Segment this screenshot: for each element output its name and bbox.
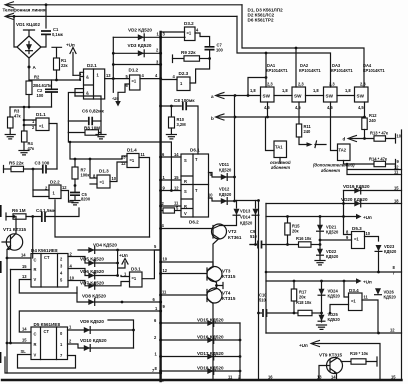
wire DA3 output to relay K2 — [331, 102, 338, 151]
wire C3 node down to D2.2 — [32, 169, 34, 197]
svg-text:100: 100 — [37, 93, 45, 98]
svg-text:510: 510 — [259, 298, 267, 303]
relay K2 — [338, 144, 351, 161]
wire D1.2 feedback to -Uп — [118, 84, 130, 101]
wire D6 pin 2/11 — [161, 205, 181, 207]
svg-text:SW: SW — [357, 94, 365, 99]
resistor R7 100к — [74, 159, 76, 167]
svg-text:11: 11 — [364, 295, 369, 300]
svg-text:VD13: VD13 — [240, 209, 251, 214]
svg-text:=1: =1 — [100, 180, 105, 185]
connector bar right — [401, 130, 403, 380]
resistor R4 47к — [22, 131, 28, 142]
wire +U to D2.1 pin — [73, 72, 84, 75]
svg-text:3,2М: 3,2М — [177, 122, 187, 127]
wire DA1 control tap — [265, 53, 267, 87]
stage 2 bottom frame — [266, 332, 402, 334]
svg-text:D2.1: D2.1 — [87, 63, 97, 68]
svg-text:C: C — [34, 258, 37, 263]
sub-circuit bottom frame — [55, 200, 150, 237]
svg-text:V: V — [184, 211, 187, 216]
wire DA1 output to relay K1 — [266, 102, 275, 151]
svg-text:R: R — [34, 267, 37, 272]
wire VD11/12 column from a-line — [234, 96, 236, 202]
svg-text:R2: R2 — [34, 75, 40, 80]
svg-text:4,5: 4,5 — [295, 105, 301, 110]
svg-text:V: V — [34, 353, 37, 358]
wire VT4 emitter down — [207, 299, 213, 381]
svg-text:VT2: VT2 — [228, 229, 237, 234]
node junction on line b — [13, 15, 16, 18]
svg-text:15: 15 — [394, 186, 399, 191]
node A — [28, 66, 31, 69]
svg-text:11: 11 — [228, 375, 233, 380]
svg-text:13: 13 — [106, 73, 111, 78]
svg-text:C: C — [34, 332, 37, 337]
svg-text:абонент: абонент — [321, 168, 340, 173]
svg-text:47к: 47к — [14, 114, 22, 119]
svg-text:КД520: КД520 — [219, 168, 232, 173]
svg-text:(дополнительный): (дополнительный) — [313, 163, 355, 168]
svg-text:VD11: VD11 — [219, 162, 230, 167]
resistor R2 — [26, 81, 32, 95]
node junction on line a — [45, 3, 48, 6]
wire column to R4 and D1.1 inputs — [23, 107, 25, 131]
svg-text:10: 10 — [208, 193, 213, 198]
svg-text:2,3: 2,3 — [298, 82, 304, 87]
svg-text:R: R — [34, 342, 37, 347]
svg-text:CT: CT — [44, 329, 50, 334]
svg-text:ТА1: ТА1 — [275, 145, 283, 150]
wire D3.2 output to C7 — [195, 33, 210, 46]
capacitor C2 100 — [51, 80, 53, 89]
svg-text:2,3: 2,3 — [267, 82, 273, 87]
svg-text:b: b — [211, 116, 214, 121]
svg-text:КР1014КТ1: КР1014КТ1 — [266, 68, 288, 73]
svg-text:VD6 КД520: VD6 КД520 — [80, 269, 104, 274]
wire D3.4 output — [362, 300, 378, 333]
wire D4 V pin loop — [19, 280, 77, 294]
svg-text:16: 16 — [268, 375, 273, 380]
wire D5 V pin loop — [18, 355, 76, 369]
svg-text:22к: 22к — [61, 63, 69, 68]
VT3 emitter / VT4 collector junction — [207, 277, 223, 289]
svg-text:1,8: 1,8 — [250, 88, 256, 93]
svg-text:КД520: КД520 — [328, 294, 341, 299]
capacitor C7 100 — [205, 47, 215, 50]
wire VD13/14 top rail — [235, 200, 259, 202]
svg-text:VD10 КД520: VD10 КД520 — [80, 338, 107, 343]
wire bottom return line A — [5, 357, 161, 373]
svg-text:VD9 КД520: VD9 КД520 — [80, 319, 104, 324]
svg-text:15: 15 — [174, 175, 179, 180]
svg-text:10: 10 — [70, 276, 75, 281]
svg-text:a: a — [211, 94, 214, 99]
svg-text:VD5 КД520: VD5 КД520 — [80, 257, 104, 262]
svg-text:VD19 КД520: VD19 КД520 — [343, 184, 370, 189]
svg-text:13: 13 — [22, 274, 27, 279]
wire D5 R pin — [6, 342, 9, 345]
wire line a bend to switches — [242, 5, 364, 87]
svg-text:D5.3: D5.3 — [352, 226, 362, 231]
wire DA2 control tap — [295, 48, 297, 87]
wire D2.1 lower inputs — [68, 89, 83, 133]
resistor R1 22к — [52, 47, 62, 58]
long vertical from VD13/14 node — [258, 201, 260, 381]
svg-text:КР1014КТ1: КР1014КТ1 — [363, 68, 385, 73]
svg-text:8200: 8200 — [81, 197, 91, 202]
svg-text:R18 10к: R18 10к — [296, 300, 312, 305]
svg-text:14: 14 — [174, 152, 179, 157]
svg-text:12: 12 — [174, 186, 179, 191]
svg-text:=1: =1 — [132, 79, 137, 84]
wire a riser to DA1 — [248, 78, 266, 96]
svg-text:VD8 КД520: VD8 КД520 — [82, 294, 106, 299]
resistor R11 240 — [296, 124, 301, 137]
svg-text:D1.3: D1.3 — [99, 169, 109, 174]
svg-text:VT9 КТ315: VT9 КТ315 — [319, 353, 343, 358]
svg-text:15: 15 — [391, 375, 396, 380]
resistor R10 3,2М — [170, 106, 172, 117]
svg-text:C3 100: C3 100 — [35, 161, 50, 166]
svg-text:SL: SL — [21, 349, 27, 354]
svg-text:VD4 КД520: VD4 КД520 — [93, 243, 117, 248]
svg-text:&: & — [86, 75, 89, 80]
power -Uп arrow — [115, 101, 121, 107]
svg-text:КД520: КД520 — [219, 192, 232, 197]
svg-text:R9 22к: R9 22к — [181, 50, 196, 55]
svg-text:C4 1,5мк: C4 1,5мк — [36, 208, 56, 213]
svg-text:240: 240 — [304, 129, 312, 134]
wire DA2 output to R11 — [298, 102, 300, 124]
wire D1.3 output — [110, 162, 127, 182]
svg-text:R19 * 10к: R19 * 10к — [350, 351, 369, 356]
svg-text:VD3 КД520: VD3 КД520 — [128, 43, 152, 48]
svg-text:+Uп: +Uп — [66, 43, 75, 48]
svg-text:D3.4: D3.4 — [349, 288, 359, 293]
svg-text:100: 100 — [216, 48, 224, 53]
svg-text:SW: SW — [326, 94, 334, 99]
svg-text:15: 15 — [22, 264, 27, 269]
power +Uп wire (stage2) — [266, 280, 356, 282]
svg-text:14: 14 — [22, 327, 27, 332]
svg-text:S: S — [184, 189, 187, 194]
svg-text:d: d — [343, 137, 346, 142]
wire D2.1 output to column — [105, 78, 130, 80]
svg-text:V: V — [34, 277, 37, 282]
svg-text:КД520: КД520 — [326, 254, 339, 259]
wire node to D2.1 input — [29, 77, 84, 81]
svg-text:абонент: абонент — [271, 165, 290, 170]
wire D6 pin 6/14 — [161, 156, 181, 158]
svg-text:КР1014КТ1: КР1014КТ1 — [331, 68, 353, 73]
svg-text:R6 1М: R6 1М — [12, 208, 26, 213]
svg-text:VD2 КД520: VD2 КД520 — [128, 28, 152, 33]
svg-text:+Uп: +Uп — [299, 343, 308, 348]
wire bridge bottom to node A — [28, 58, 30, 80]
svg-text:S: S — [184, 158, 187, 163]
svg-text:12: 12 — [62, 185, 67, 190]
wire D5.3 output to VD23 — [365, 237, 379, 242]
svg-text:D4 К561ИЕ8: D4 К561ИЕ8 — [31, 248, 58, 253]
ground below R8 — [96, 135, 106, 139]
svg-text:VD12: VD12 — [219, 187, 230, 192]
svg-text:+Uп: +Uп — [363, 280, 372, 285]
wire D6 pin 9/12 — [161, 190, 181, 192]
wire D6 pin 1/15 — [161, 179, 181, 181]
wire D5 C feed from bus — [19, 311, 160, 332]
svg-text:510: 510 — [250, 234, 258, 239]
svg-text:КТ315: КТ315 — [222, 274, 236, 279]
svg-text:=1: =1 — [39, 124, 44, 129]
wire from line b down to bridge — [14, 16, 17, 47]
edge mark left 2 — [0, 261, 2, 273]
svg-text:12: 12 — [163, 268, 168, 273]
svg-text:SW: SW — [263, 94, 271, 99]
svg-text:VT1 КТ315: VT1 КТ315 — [3, 227, 27, 232]
wire from line a down to C1 — [45, 5, 47, 28]
svg-text:R: R — [184, 179, 187, 184]
svg-text:2В4.61Пк: 2В4.61Пк — [33, 83, 52, 88]
wire DA4 output to R12 — [364, 102, 366, 118]
svg-text:4,5: 4,5 — [358, 105, 364, 110]
svg-text:=1: =1 — [354, 237, 359, 242]
wire line a (top phone wire) — [8, 4, 242, 6]
svg-text:D1.1: D1.1 — [36, 112, 46, 117]
svg-text:D6.1: D6.1 — [190, 148, 200, 153]
wire VT3 collector from bus — [161, 262, 213, 267]
svg-text:+Uп: +Uп — [119, 253, 128, 258]
svg-text:18: 18 — [394, 199, 399, 204]
svg-text:D6 К561ТР2: D6 К561ТР2 — [248, 18, 274, 23]
wire VT2 base from bus — [161, 228, 213, 230]
wires to connector 12/11 — [347, 164, 402, 175]
svg-text:=1: =1 — [187, 31, 192, 36]
wire D4 R pin — [11, 269, 32, 271]
stage 1 frame — [266, 204, 402, 334]
svg-text:11: 11 — [162, 290, 167, 295]
main bus (bold vertical) — [159, 32, 161, 381]
svg-text:D1.2: D1.2 — [129, 68, 139, 73]
svg-text:КД520: КД520 — [384, 249, 397, 254]
wire line b bend to switches — [237, 16, 331, 87]
ground below R3 — [5, 135, 15, 139]
svg-text:20к: 20к — [292, 229, 300, 234]
svg-text:10: 10 — [366, 231, 371, 236]
wire between switches — [274, 95, 355, 97]
wire VT1 emitter rail with D4 C pin — [6, 257, 9, 260]
wire line b (lower phone wire) — [8, 15, 237, 17]
svg-text:=1: =1 — [130, 158, 135, 163]
resistor R12 240 — [362, 118, 367, 130]
svg-text:13: 13 — [121, 155, 126, 160]
wire D1.4 output down — [139, 158, 150, 238]
resistor R3 47к — [9, 107, 11, 117]
svg-text:11: 11 — [141, 152, 146, 157]
svg-text:=1: =1 — [351, 299, 356, 304]
svg-text:КТ315: КТ315 — [222, 296, 236, 301]
svg-text:240: 240 — [369, 118, 377, 123]
svg-text:КР1014КТ1: КР1014КТ1 — [299, 68, 321, 73]
svg-text:10: 10 — [112, 176, 117, 181]
svg-text:R: R — [184, 204, 187, 209]
capacitor C5 8200 — [70, 193, 80, 196]
svg-text:ТА2: ТА2 — [339, 148, 347, 153]
svg-text:2,3: 2,3 — [360, 82, 366, 87]
wire D1.2 output to bus — [140, 78, 161, 80]
svg-text:R16 10к: R16 10к — [296, 236, 312, 241]
svg-text:20к: 20к — [299, 295, 307, 300]
svg-text:VD14: VD14 — [240, 215, 251, 220]
svg-text:100к: 100к — [81, 173, 91, 178]
svg-text:КД520: КД520 — [240, 221, 253, 226]
svg-text:=1: =1 — [132, 276, 137, 281]
power +Uп wire (stage1) — [266, 216, 356, 218]
sub-circuit frame wire y159 — [70, 142, 127, 159]
svg-text:2,3: 2,3 — [329, 82, 335, 87]
svg-text:CT: CT — [44, 255, 50, 260]
svg-text:&: & — [86, 91, 89, 96]
bottom rail line B — [2, 379, 402, 381]
svg-text:КТ361: КТ361 — [228, 235, 242, 240]
svg-text:D3.2: D3.2 — [184, 21, 194, 26]
relay contact symbol — [307, 142, 313, 147]
svg-text:0,1мк: 0,1мк — [52, 32, 64, 37]
wire VD4 net to D3.1 output — [142, 250, 161, 279]
svg-text:11: 11 — [394, 170, 399, 175]
svg-text:D5 К561ИЕ8: D5 К561ИЕ8 — [34, 322, 61, 327]
svg-text:1,8: 1,8 — [282, 88, 288, 93]
svg-text:15: 15 — [22, 338, 27, 343]
svg-text:КД520: КД520 — [328, 317, 341, 322]
svg-text:КД520: КД520 — [326, 230, 339, 235]
svg-text:12: 12 — [121, 161, 126, 166]
svg-text:D2.3: D2.3 — [179, 71, 189, 76]
resistor R17 20к — [293, 281, 295, 289]
edge mark left 1 — [0, 205, 2, 217]
wire left column — [112, 37, 114, 92]
relay K1 — [274, 141, 287, 158]
svg-text:D3.1: D3.1 — [131, 267, 141, 272]
wire C9 left to VT2 — [250, 244, 256, 246]
svg-text:1,8: 1,8 — [345, 88, 351, 93]
ground below R10 — [166, 135, 176, 139]
svg-text:14: 14 — [331, 375, 336, 380]
svg-text:VT3: VT3 — [222, 269, 231, 274]
svg-text:SW: SW — [294, 94, 302, 99]
svg-text:КД520: КД520 — [384, 295, 397, 300]
resistor on D6 V pin wire — [161, 210, 163, 212]
svg-text:+Uп: +Uп — [363, 215, 372, 220]
capacitor C1 0,1мк — [41, 31, 51, 34]
wire VD9/VD10 collector column — [108, 320, 134, 348]
svg-text:D6.2: D6.2 — [189, 220, 199, 225]
svg-text:1,8: 1,8 — [313, 88, 319, 93]
ground below R4 — [19, 151, 29, 155]
wire VD15-18 common column — [239, 323, 241, 380]
svg-text:R5 22к: R5 22к — [9, 161, 24, 166]
svg-text:12: 12 — [390, 328, 395, 333]
svg-text:Телефонная линия: Телефонная линия — [3, 7, 46, 13]
svg-text:10: 10 — [163, 257, 168, 262]
svg-text:VT4: VT4 — [222, 291, 231, 296]
node wire y107 — [10, 106, 52, 108]
svg-text:R13 * 47к: R13 * 47к — [370, 131, 389, 136]
svg-text:14: 14 — [21, 253, 26, 258]
wire loop to y142 line — [68, 133, 171, 191]
svg-text:D1.4: D1.4 — [127, 148, 137, 153]
svg-text:VD1 КЦ402: VD1 КЦ402 — [16, 22, 40, 27]
wire D1.1 output — [49, 124, 57, 170]
svg-text:D2.2: D2.2 — [50, 180, 60, 185]
wire third tap — [113, 64, 160, 66]
edge mark left 3 — [0, 352, 1, 363]
svg-text:C8 100мк: C8 100мк — [174, 98, 195, 103]
svg-text:13: 13 — [317, 375, 322, 380]
svg-text:-Uп: -Uп — [112, 96, 119, 101]
resistor R15 20к — [287, 217, 289, 224]
wire K2 to R14 — [344, 163, 375, 165]
wire C4 node down to D4 area — [32, 217, 34, 259]
